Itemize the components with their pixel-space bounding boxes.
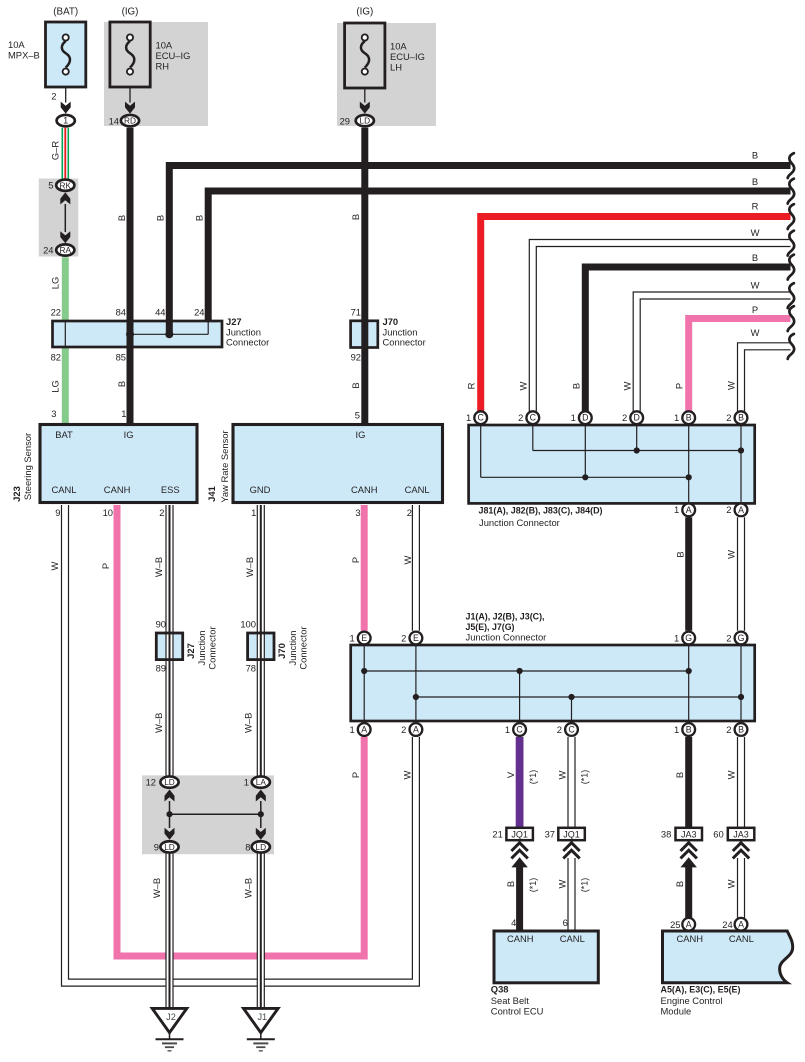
svg-text:CANH: CANH	[677, 933, 704, 944]
junction dot J27 pin 85	[126, 330, 134, 338]
connector oval LD	[356, 115, 374, 126]
svg-text:W: W	[557, 770, 568, 779]
svg-text:2: 2	[401, 632, 406, 643]
svg-text:(BAT): (BAT)	[53, 7, 78, 18]
svg-text:P: P	[752, 304, 758, 315]
svg-text:B: B	[674, 772, 685, 778]
wire B from LD fuse through J70 to yaw IG	[361, 128, 368, 425]
svg-text:RK: RK	[60, 180, 72, 190]
wire break squiggle R	[788, 204, 794, 229]
svg-text:10: 10	[103, 507, 113, 518]
svg-text:2: 2	[557, 724, 562, 735]
svg-text:C: C	[530, 413, 537, 423]
svg-text:JQ1: JQ1	[563, 829, 580, 839]
arrow down into LD8	[256, 828, 266, 840]
svg-text:LD: LD	[255, 842, 266, 852]
svg-text:B: B	[752, 149, 758, 160]
svg-text:GND: GND	[250, 484, 271, 495]
svg-text:1: 1	[466, 412, 471, 423]
svg-text:W: W	[402, 770, 413, 779]
svg-text:W–B: W–B	[153, 557, 164, 577]
svg-text:J27: J27	[185, 643, 196, 659]
svg-text:B: B	[686, 413, 692, 423]
svg-text:Q38: Q38	[491, 983, 509, 994]
svg-text:C: C	[516, 725, 523, 735]
svg-text:Module: Module	[661, 1006, 692, 1017]
wire break squiggle W2	[788, 283, 794, 308]
junction connector J70	[351, 321, 378, 348]
svg-text:A: A	[686, 919, 692, 929]
wire W to J81 2D	[637, 296, 791, 412]
svg-text:R: R	[466, 382, 477, 389]
svg-text:6: 6	[563, 917, 568, 928]
wire break squiggle B3	[788, 255, 794, 280]
svg-text:(*1): (*1)	[580, 770, 590, 785]
svg-text:(*1): (*1)	[580, 878, 590, 893]
fuse 10A ECU-IG RH (IG)	[110, 22, 150, 87]
svg-text:9: 9	[154, 841, 159, 852]
wire W J1 2C to JQ1 37	[567, 737, 575, 828]
svg-text:2: 2	[159, 507, 164, 518]
svg-text:W–B: W–B	[151, 878, 162, 898]
svg-text:P: P	[674, 383, 685, 389]
arrow into connector RD	[125, 102, 135, 114]
wire W J81 2A to J1 2G	[737, 517, 745, 631]
svg-text:V: V	[505, 771, 516, 778]
svg-text:B: B	[116, 381, 127, 387]
svg-text:B: B	[738, 725, 744, 735]
wire B from RD fuse through J27 to steering IG	[127, 128, 134, 425]
svg-text:LD: LD	[164, 842, 175, 852]
wire W J1 2B to JA3 60	[737, 737, 745, 828]
svg-text:J70: J70	[276, 643, 287, 659]
svg-text:24: 24	[722, 919, 732, 930]
svg-text:E: E	[361, 633, 367, 643]
wire B to J81 1D	[585, 267, 790, 412]
svg-text:G–R: G–R	[50, 141, 61, 161]
svg-text:Connector: Connector	[298, 626, 309, 669]
svg-text:J41: J41	[206, 486, 217, 502]
arrow up into RK	[60, 192, 70, 204]
wire fuse MPX-B pin 2	[65, 87, 67, 103]
svg-text:LG: LG	[50, 277, 61, 290]
svg-text:B: B	[738, 413, 744, 423]
svg-text:W: W	[726, 770, 737, 779]
svg-text:ECU–IG: ECU–IG	[390, 51, 425, 62]
svg-text:B: B	[752, 176, 758, 187]
svg-text:1: 1	[244, 777, 249, 788]
svg-text:(IG): (IG)	[122, 7, 139, 18]
connector JA3 pin 38	[676, 828, 703, 840]
svg-text:3: 3	[355, 507, 360, 518]
gray block behind fuse ECU-IG RH	[104, 22, 208, 126]
svg-text:W: W	[557, 879, 568, 888]
svg-text:71: 71	[351, 307, 361, 318]
svg-text:2: 2	[726, 724, 731, 735]
svg-text:1: 1	[571, 412, 576, 423]
svg-text:2: 2	[622, 412, 627, 423]
svg-text:ESS: ESS	[161, 484, 180, 495]
svg-text:9: 9	[55, 507, 60, 518]
svg-text:G: G	[685, 633, 692, 643]
svg-text:A: A	[738, 919, 744, 929]
svg-text:1: 1	[674, 504, 679, 515]
svg-text:JA3: JA3	[681, 829, 697, 839]
wire break squiggle B2	[788, 179, 794, 204]
svg-text:1: 1	[121, 408, 126, 419]
svg-text:J70: J70	[383, 316, 399, 327]
svg-text:B: B	[752, 252, 758, 263]
svg-text:C: C	[568, 725, 575, 735]
svg-text:1: 1	[674, 412, 679, 423]
arrow into connector LD	[360, 102, 370, 114]
svg-text:J27: J27	[226, 316, 242, 327]
connector JA3 pin 60	[728, 828, 755, 840]
wire LD12 to LD9	[169, 801, 171, 828]
svg-text:B: B	[155, 215, 166, 221]
wire P steering CANH loop to J1 1A	[117, 505, 364, 956]
svg-text:A: A	[738, 505, 744, 515]
gray block behind connectors RK/RA	[39, 179, 79, 257]
wire W JA3 to A5 CANL pin 24	[737, 858, 745, 918]
svg-text:5: 5	[355, 410, 360, 421]
svg-text:CANL: CANL	[405, 484, 430, 495]
svg-text:W: W	[518, 381, 529, 390]
wire B JA3 to A5 CANH pin 25	[681, 857, 697, 867]
svg-text:22: 22	[51, 307, 61, 318]
svg-text:10A: 10A	[156, 40, 173, 51]
wire B horizontal 2 to J27 pin 24	[208, 191, 790, 321]
wire B pin 44 inside J27	[166, 321, 173, 334]
svg-text:J1(A), J2(B), J3(C),: J1(A), J2(B), J3(C),	[466, 610, 545, 621]
svg-text:Connector: Connector	[226, 337, 269, 348]
wire W-B steering ESS to LD12	[165, 505, 173, 776]
svg-text:21: 21	[492, 828, 502, 839]
svg-text:2: 2	[726, 412, 731, 423]
svg-text:CANL: CANL	[560, 933, 585, 944]
svg-text:W: W	[622, 381, 633, 390]
svg-text:2: 2	[518, 412, 523, 423]
wire W steering CANL loop to J1 2A	[65, 505, 416, 983]
arrow into connector 1	[61, 102, 71, 114]
wire B J81 1A to J1 1G	[685, 517, 692, 631]
svg-text:J2: J2	[166, 1012, 176, 1022]
wire W to J81 2C	[533, 243, 791, 412]
svg-text:MPX–B: MPX–B	[8, 50, 40, 61]
svg-text:84: 84	[116, 307, 126, 318]
wire W yaw CANL to J1 2E	[412, 505, 420, 631]
svg-text:90: 90	[156, 619, 166, 630]
svg-text:W–B: W–B	[153, 713, 164, 733]
svg-text:B: B	[116, 215, 127, 221]
svg-text:B: B	[350, 382, 361, 388]
svg-text:12: 12	[146, 777, 156, 788]
connector oval RD	[121, 115, 139, 126]
svg-text:P: P	[350, 557, 361, 563]
svg-text:A: A	[361, 725, 367, 735]
svg-text:B: B	[571, 383, 582, 389]
svg-text:1: 1	[505, 724, 510, 735]
svg-text:29: 29	[340, 115, 350, 126]
connector oval 1	[57, 115, 75, 126]
svg-text:W: W	[402, 555, 413, 564]
svg-text:82: 82	[51, 352, 61, 363]
wire P yaw CANH to J1 1E	[361, 505, 368, 631]
arrow down into LD9	[165, 828, 175, 840]
svg-text:W: W	[751, 227, 760, 238]
wire W-B yaw GND to LA1	[257, 505, 265, 776]
svg-text:2: 2	[51, 91, 56, 102]
ground J1	[244, 1008, 279, 1032]
svg-text:W: W	[751, 327, 760, 338]
svg-text:25: 25	[670, 919, 680, 930]
svg-text:8: 8	[245, 841, 250, 852]
svg-text:B: B	[674, 881, 685, 887]
svg-text:5: 5	[48, 180, 53, 191]
svg-text:B: B	[350, 214, 361, 220]
svg-text:D: D	[582, 413, 588, 423]
svg-text:A: A	[686, 505, 692, 515]
junction dot J27 pin 44	[165, 330, 173, 338]
svg-text:CANH: CANH	[351, 484, 378, 495]
wire RK to RA	[64, 204, 66, 232]
wire LA1 to LD8	[260, 801, 262, 828]
svg-text:2: 2	[726, 504, 731, 515]
junction connector J81(A) J82(B) J83(C) J84(D)	[469, 425, 755, 503]
fuse 10A MPX-B (BAT)	[46, 22, 86, 87]
svg-text:J23: J23	[11, 486, 22, 502]
svg-text:Junction Connector: Junction Connector	[479, 517, 560, 528]
svg-text:LG: LG	[50, 380, 61, 393]
svg-text:RD: RD	[124, 116, 136, 126]
wire B through J27 pin 84-85	[127, 321, 134, 347]
svg-text:LA: LA	[256, 777, 267, 787]
junction connector J27 (pins 90/89)	[156, 633, 182, 660]
wire break squiggle W1	[788, 231, 794, 256]
svg-text:78: 78	[246, 662, 256, 673]
svg-text:JQ1: JQ1	[511, 829, 528, 839]
svg-text:IG: IG	[124, 429, 134, 440]
wire break squiggle W3	[788, 334, 794, 359]
svg-text:100: 100	[240, 619, 256, 630]
svg-text:Seat Belt: Seat Belt	[491, 995, 529, 1006]
pin 24 circle A of A5	[735, 918, 748, 931]
svg-text:2: 2	[407, 507, 412, 518]
arrow down into RA	[60, 231, 70, 243]
junction connector J27	[53, 321, 223, 347]
wire B JQ1 to Q38 CANH pin 4	[511, 857, 527, 867]
svg-text:W–B: W–B	[242, 878, 253, 898]
junction connector J1(A) J2(B) J3(C) J5(E) J7(G)	[351, 645, 755, 721]
ECU J41 Yaw Rate Sensor	[233, 425, 443, 503]
gray block behind fuse ECU-IG LH	[337, 23, 436, 126]
svg-text:B: B	[505, 881, 516, 887]
svg-text:J81(A), J82(B), J83(C), J84(D): J81(A), J82(B), J83(C), J84(D)	[479, 505, 603, 516]
svg-text:CANL: CANL	[729, 933, 754, 944]
svg-text:LD: LD	[164, 777, 175, 787]
ECU Q38 Seat Belt Control ECU	[494, 931, 598, 983]
svg-text:W: W	[49, 561, 60, 570]
svg-text:1: 1	[674, 724, 679, 735]
svg-text:P: P	[100, 563, 111, 569]
svg-text:2: 2	[726, 632, 731, 643]
wire W-B LD9 to ground J2	[165, 854, 173, 1009]
svg-text:R: R	[752, 200, 759, 211]
wire W JQ1 to Q38 CANL pin 6	[567, 858, 575, 931]
svg-text:Steering Sensor: Steering Sensor	[22, 433, 33, 500]
wire R to J81 1C	[481, 217, 791, 412]
ground J2	[152, 1008, 187, 1032]
svg-text:W: W	[726, 879, 737, 888]
svg-text:E: E	[413, 633, 419, 643]
svg-text:10A: 10A	[390, 41, 407, 52]
svg-text:CANH: CANH	[507, 933, 534, 944]
svg-text:24: 24	[43, 245, 53, 256]
svg-text:W: W	[726, 381, 737, 390]
wire B through J70	[361, 321, 368, 348]
svg-text:Connector: Connector	[207, 626, 218, 669]
wire fuse LH pin 29	[364, 88, 366, 103]
svg-text:10A: 10A	[8, 39, 25, 50]
svg-text:W: W	[751, 279, 760, 290]
svg-text:85: 85	[116, 352, 126, 363]
svg-text:D: D	[634, 413, 640, 423]
svg-text:Yaw Rate Sensor: Yaw Rate Sensor	[219, 430, 230, 502]
svg-text:Junction: Junction	[196, 631, 207, 666]
fuse 10A ECU-IG LH (IG)	[345, 23, 385, 88]
svg-text:W–B: W–B	[242, 713, 253, 733]
svg-text:W–B: W–B	[244, 557, 255, 577]
svg-text:RA: RA	[60, 245, 72, 255]
svg-text:Junction Connector: Junction Connector	[466, 632, 547, 643]
svg-text:1: 1	[63, 116, 68, 126]
ECU A5 Engine Control Module	[663, 931, 793, 983]
svg-text:60: 60	[713, 828, 723, 839]
svg-text:J1: J1	[257, 1012, 267, 1022]
svg-text:(*1): (*1)	[528, 878, 538, 893]
svg-text:(*1): (*1)	[528, 770, 538, 785]
svg-text:ECU–IG: ECU–IG	[156, 50, 191, 61]
wire junction crossbar	[170, 813, 261, 815]
connector JQ1 pin 21	[506, 828, 533, 840]
junction connector J70 (pins 100/78)	[248, 633, 274, 660]
svg-text:W: W	[725, 550, 736, 559]
svg-text:2: 2	[401, 724, 406, 735]
wire W-B LD8 to ground J1	[257, 854, 265, 1009]
svg-text:CANH: CANH	[104, 484, 131, 495]
wire G-R from connector 1 to RK	[62, 128, 70, 179]
svg-text:1: 1	[251, 507, 256, 518]
svg-text:G: G	[738, 633, 745, 643]
svg-text:J5(E), J7(G): J5(E), J7(G)	[466, 621, 515, 632]
wire break squiggle B1	[788, 153, 794, 178]
wire P to J81 1B	[689, 319, 791, 412]
svg-text:24: 24	[194, 307, 204, 318]
svg-text:RH: RH	[156, 61, 170, 72]
connector JQ1 pin 37	[558, 828, 585, 840]
svg-text:1: 1	[349, 632, 354, 643]
pin 25 circle A of A5	[682, 918, 695, 931]
svg-text:Engine Control: Engine Control	[661, 995, 723, 1006]
svg-text:JA3: JA3	[733, 829, 749, 839]
arrow up into LA1	[256, 790, 266, 802]
svg-text:BAT: BAT	[55, 429, 73, 440]
svg-text:38: 38	[661, 828, 671, 839]
svg-text:44: 44	[155, 307, 165, 318]
wire B horizontal 1 to J27 pin 44	[169, 166, 790, 335]
wire fuse RH pin 14	[129, 87, 131, 103]
wire V J1 1C to JQ1 21	[516, 737, 524, 828]
svg-text:Connector: Connector	[383, 337, 426, 348]
svg-text:A5(A), E3(C), E5(E): A5(A), E3(C), E5(E)	[661, 983, 741, 994]
wire W to J81 2B	[741, 346, 791, 411]
svg-text:B: B	[194, 215, 205, 221]
wire B J1 1B to JA3 38	[685, 737, 692, 828]
wire break squiggle P	[788, 306, 794, 331]
svg-text:4: 4	[511, 917, 516, 928]
svg-text:92: 92	[351, 352, 361, 363]
svg-text:CANL: CANL	[51, 484, 76, 495]
svg-text:C: C	[478, 413, 485, 423]
svg-text:IG: IG	[356, 429, 366, 440]
svg-text:1: 1	[674, 632, 679, 643]
svg-text:LH: LH	[390, 62, 402, 73]
gray block behind connectors LD/LA	[142, 775, 274, 854]
svg-text:Control ECU: Control ECU	[491, 1006, 544, 1017]
svg-text:Junction: Junction	[287, 631, 298, 666]
svg-text:3: 3	[51, 408, 56, 419]
svg-text:P: P	[350, 772, 361, 778]
wire LG from RA to steering sensor BAT	[62, 257, 69, 424]
svg-text:LD: LD	[359, 116, 370, 126]
arrow up into LD12	[165, 790, 175, 802]
svg-text:A: A	[413, 725, 419, 735]
ECU J23 Steering Sensor	[40, 425, 197, 503]
svg-text:37: 37	[545, 828, 555, 839]
svg-text:B: B	[674, 551, 685, 557]
svg-text:B: B	[686, 725, 692, 735]
svg-text:14: 14	[109, 115, 119, 126]
svg-text:(IG): (IG)	[356, 7, 373, 18]
svg-text:1: 1	[349, 724, 354, 735]
svg-text:89: 89	[156, 662, 166, 673]
